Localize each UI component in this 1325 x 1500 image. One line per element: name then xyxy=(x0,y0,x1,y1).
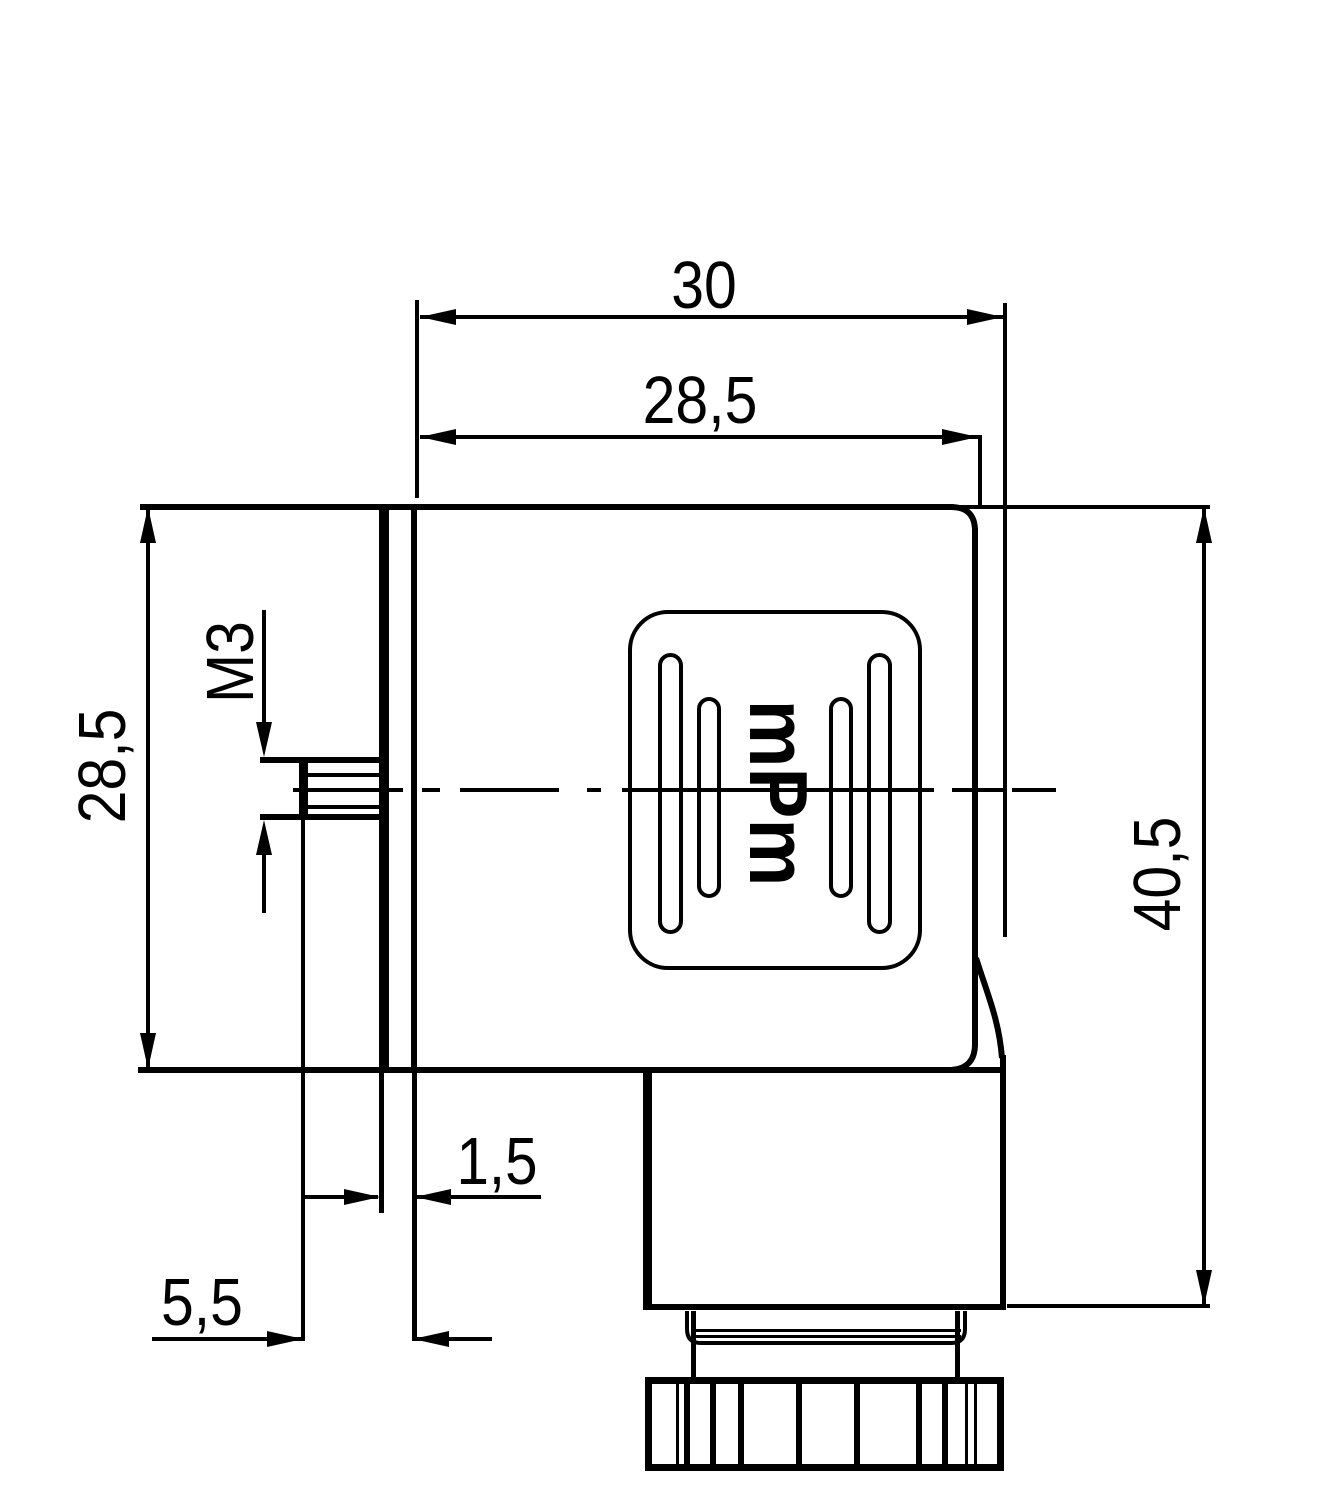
collar outline xyxy=(687,1311,965,1343)
lower body left edge xyxy=(643,1070,652,1310)
neck right xyxy=(955,1311,960,1377)
neck left xyxy=(691,1311,696,1377)
M3 leader upper xyxy=(262,610,266,722)
M3 leader lower xyxy=(256,820,272,855)
body bottom-right corner xyxy=(948,1044,975,1070)
lower body bottom edge xyxy=(645,1304,1005,1310)
svg-text:M3: M3 xyxy=(194,621,268,703)
svg-text:30: 30 xyxy=(671,249,737,323)
dimension 1,5 line xyxy=(304,1195,378,1199)
body bottom edge with left extension xyxy=(138,1067,1006,1073)
svg-text:mPm: mPm xyxy=(732,700,825,887)
slot outer-left xyxy=(660,655,681,932)
svg-text:28,5: 28,5 xyxy=(643,364,758,438)
stud lower extension for 5,5 xyxy=(301,820,305,1341)
svg-text:40,5: 40,5 xyxy=(1121,817,1195,932)
label plate xyxy=(630,612,920,968)
body left face xyxy=(411,506,417,1070)
knurled nut outline xyxy=(649,1381,1001,1468)
svg-text:28,5: 28,5 xyxy=(66,709,140,824)
extension 40,5 bottom xyxy=(1007,1304,1210,1308)
dimension 5,5 line xyxy=(152,1337,301,1341)
dimension 28,5 top line xyxy=(420,435,978,439)
centerline xyxy=(293,788,1056,792)
extension 40,5 top xyxy=(958,505,1210,509)
dimension 28,5 left line xyxy=(146,509,150,1069)
extension line left of top dims xyxy=(415,300,419,498)
S-curve transition xyxy=(976,958,1002,1058)
body top edge with left extension xyxy=(140,504,954,510)
extension line right for dim 30 xyxy=(1003,303,1007,937)
knurl lines xyxy=(676,1384,977,1465)
svg-text:5,5: 5,5 xyxy=(161,1266,243,1340)
svg-text:1,5: 1,5 xyxy=(456,1124,537,1199)
slot inner-left xyxy=(699,699,719,896)
slot outer-right xyxy=(869,655,890,932)
slot inner-right xyxy=(831,699,851,896)
dimension 40,5 line xyxy=(1202,507,1206,1306)
lower body right edge xyxy=(1000,1055,1006,1310)
body top-right corner xyxy=(951,507,975,531)
stud M3 outline xyxy=(260,757,388,820)
extension line right for dim 28,5 top xyxy=(978,435,982,505)
collar inner lines xyxy=(691,1329,961,1332)
flange left face xyxy=(379,506,389,1070)
body right edge xyxy=(972,528,978,1046)
dimension 30 line xyxy=(420,315,1003,319)
extension lines for 1,5 xyxy=(379,1073,384,1213)
